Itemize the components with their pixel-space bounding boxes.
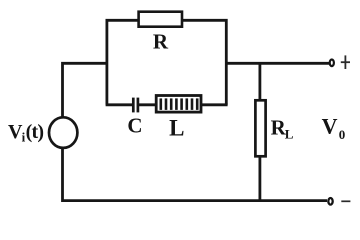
svg-text:L: L [169, 115, 184, 140]
wire: node B to + terminal [226, 62, 329, 65]
svg-text:C: C [127, 114, 142, 138]
svg-text:L: L [285, 127, 294, 142]
wire: source top lead and horizontal to node A [63, 63, 109, 117]
svg-text:(t): (t) [26, 121, 44, 143]
capacitor C [133, 98, 138, 113]
resistor R_L [255, 100, 265, 156]
minus sign [341, 200, 350, 202]
wire: top rail right segment and loop right vertical [182, 20, 227, 105]
svg-text:V: V [322, 114, 338, 139]
wire: R_L bottom lead [258, 157, 261, 201]
wire: R_L top lead [258, 63, 261, 100]
svg-text:R: R [153, 30, 169, 54]
voltage source V_i(t) [49, 117, 77, 148]
resistor R [139, 12, 182, 27]
inductor L [156, 96, 201, 113]
wire: inductor to loop right vertical [201, 103, 228, 106]
wire: loop left vertical and top rail left segment [107, 20, 139, 105]
wire: bottom branch left segment [106, 103, 133, 106]
plus sign [341, 55, 350, 69]
wire: source bottom lead and bottom rail [63, 148, 328, 201]
svg-text:0: 0 [339, 127, 346, 142]
terminal + (output top) [330, 60, 334, 67]
terminal - (output bottom) [328, 198, 332, 205]
wire: capacitor to inductor [139, 103, 157, 106]
